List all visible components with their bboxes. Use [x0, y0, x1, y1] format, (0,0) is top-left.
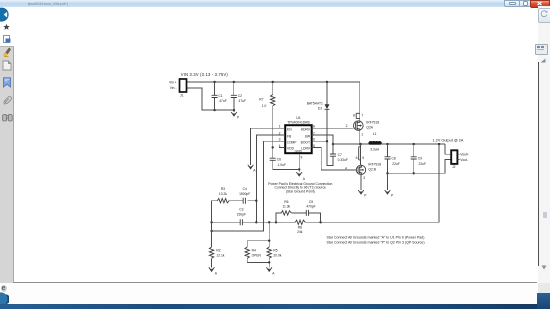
wire J1 minus to input ground [187, 88, 235, 110]
small page widget icon [535, 44, 548, 55]
svg-text:R5: R5 [273, 248, 277, 252]
taskbar [0, 304, 550, 309]
svg-text:J2: J2 [452, 165, 456, 169]
note star grounds [327, 235, 425, 244]
svg-text:1: 1 [361, 133, 363, 137]
svg-text:20.0k: 20.0k [273, 254, 281, 258]
svg-text:R3: R3 [221, 187, 225, 191]
inductor L1 [333, 132, 445, 152]
node junction BOOT [326, 140, 328, 142]
diode D1 BAT54HT1 [307, 82, 330, 166]
svg-text:22uF: 22uF [392, 162, 400, 166]
node junction SW corner [332, 143, 334, 145]
wire U1 FB column [256, 135, 285, 222]
wire R4 R5 bottom [247, 258, 269, 267]
wire HDRV to Q2A gate [312, 127, 354, 129]
bottom triangle [541, 265, 547, 270]
svg-text:R6: R6 [284, 200, 288, 204]
svg-text:C6: C6 [277, 158, 281, 162]
resistor R2 [209, 247, 224, 267]
wire feedback from output to W2 bus [321, 144, 440, 222]
svg-text:1500pF: 1500pF [239, 192, 250, 196]
node junction W3 left rail [210, 230, 212, 232]
wire U1 GND stub [298, 153, 300, 169]
node junction C2 top [233, 81, 235, 83]
bottom chrome [13, 282, 537, 283]
ground R2 A [209, 267, 218, 275]
wire W1 compensation top [212, 200, 257, 202]
node junction R5 top [268, 240, 270, 242]
svg-text:OPEN: OPEN [252, 254, 262, 258]
capacitor C2 [231, 82, 246, 110]
svg-text:A: A [215, 272, 218, 276]
svg-text:1.0uF: 1.0uF [278, 163, 286, 167]
svg-text:A: A [272, 272, 275, 276]
transistor Q2B [345, 163, 381, 191]
node junction switch node [359, 143, 362, 146]
wire R4 R5 top [247, 222, 269, 247]
svg-text:COMP: COMP [287, 141, 298, 145]
svg-text:R7: R7 [259, 97, 263, 101]
svg-text:C7: C7 [338, 153, 342, 157]
resistor R4 [245, 247, 262, 258]
connector J1 [169, 72, 228, 97]
node junction W2 left rail [210, 221, 212, 223]
scroll thumb blob [543, 212, 547, 218]
node junction C1 top [213, 81, 215, 83]
node junction C1 bottom [213, 109, 215, 111]
op-amp U1 TPS40041DRB [279, 116, 318, 159]
resistor R8 [295, 220, 305, 234]
svg-text:24k: 24k [297, 230, 303, 234]
svg-text:2: 2 [346, 124, 348, 128]
svg-text:7: 7 [361, 113, 363, 117]
resistor R6 [276, 200, 306, 222]
title bar [0, 0, 550, 7]
e icon [1, 285, 7, 292]
capacitor C6 [270, 147, 300, 169]
wire VIN rail down to Q2A drain [359, 82, 361, 121]
svg-text:BAT54HT1: BAT54HT1 [307, 102, 323, 106]
svg-text:P: P [364, 193, 367, 197]
capacitor C7 [327, 144, 348, 166]
resistor R3 [217, 187, 229, 203]
node junction output feedback tap [438, 143, 440, 145]
svg-text:D1: D1 [318, 107, 322, 111]
resistor R7 [259, 82, 275, 147]
resistor R5 [267, 247, 282, 258]
svg-text:1.0: 1.0 [262, 104, 267, 108]
ground C8 P [385, 173, 394, 197]
svg-text:A: A [303, 177, 306, 181]
node junction GND/C6 [298, 168, 300, 170]
capacitor C3 [237, 208, 246, 226]
node junction C2 bottom [233, 109, 235, 111]
note power pad [268, 182, 332, 193]
svg-text:R2: R2 [216, 248, 220, 252]
svg-text:470pF: 470pF [306, 205, 315, 209]
svg-text:47uF: 47uF [219, 99, 227, 103]
svg-text:47uF: 47uF [239, 99, 247, 103]
paperclip icon [2, 95, 12, 106]
wire output to J2 plus [445, 144, 451, 154]
svg-text:Q2:B: Q2:B [368, 167, 376, 171]
wire U1 EN to ground column [251, 128, 286, 165]
svg-text:BOOT: BOOT [301, 141, 310, 145]
svg-text:12.1k: 12.1k [216, 254, 224, 258]
svg-text:IRF7918: IRF7918 [366, 121, 379, 125]
svg-text:Vin +: Vin + [169, 80, 177, 84]
node junction D1 top [326, 81, 328, 83]
svg-text:LDRV: LDRV [301, 147, 311, 151]
svg-text:Vout-: Vout- [460, 158, 468, 162]
wire switch column to Q2B drain [356, 144, 365, 165]
svg-text:VDD: VDD [287, 147, 295, 151]
node junction C8 bottom [386, 172, 388, 174]
svg-text:8: 8 [353, 113, 355, 117]
ground U1 A [296, 169, 305, 181]
svg-text:Q2A: Q2A [366, 125, 373, 129]
svg-text:C4: C4 [243, 187, 247, 191]
svg-text:C9: C9 [418, 156, 422, 160]
bookmark icon [2, 77, 12, 88]
node junction VDD pin4 [272, 146, 274, 148]
svg-text:10.2k: 10.2k [219, 192, 227, 196]
wire LDRV to Q2B gate [312, 147, 357, 170]
star icon [2, 23, 11, 31]
ground R5 A [266, 267, 275, 275]
ground EN A [248, 165, 256, 173]
capacitor C1 [212, 82, 227, 110]
svg-text:C8: C8 [392, 156, 396, 160]
svg-text:U1: U1 [296, 116, 301, 120]
svg-text:3.3uH: 3.3uH [370, 147, 379, 151]
ground input P [231, 110, 240, 120]
node junction W2 R6 branch left [275, 221, 277, 223]
svg-text:150pF: 150pF [237, 213, 246, 217]
svg-text:C5: C5 [309, 200, 313, 204]
svg-text:Vin -: Vin - [170, 86, 177, 90]
svg-text:R8: R8 [298, 226, 302, 230]
node junction W2 R6 branch right [319, 221, 321, 223]
refresh button [538, 8, 550, 23]
svg-text:VIN 3.3V (3.13 - 3.75V): VIN 3.3V (3.13 - 3.75V) [181, 72, 229, 77]
svg-text:9: 9 [301, 156, 303, 160]
node junction R5 bottom [268, 261, 270, 263]
svg-text:SW: SW [305, 134, 311, 138]
svg-text:IRF7918: IRF7918 [368, 163, 381, 167]
svg-text:A: A [253, 168, 256, 172]
capacitor C9 [411, 143, 426, 175]
right scrollbar strip [538, 6, 550, 286]
page icon [3, 35, 12, 43]
svg-text:0.33uF: 0.33uF [338, 158, 348, 162]
node junction FB W2 [255, 221, 257, 223]
svg-text:EN: EN [287, 128, 292, 132]
node junction W1 right [255, 200, 257, 202]
wire U1 SW to switch node [312, 135, 333, 144]
svg-text:C1: C1 [218, 94, 222, 98]
wire W2 bus [212, 221, 440, 223]
binoculars icon [2, 112, 13, 122]
svg-text:Vout+: Vout+ [460, 153, 469, 157]
window buttons [504, 0, 521, 7]
wire left rail [211, 201, 213, 247]
node junction R7 top [272, 81, 274, 83]
svg-text:Star Connect All Grounds marke: Star Connect All Grounds marked "P" to Q… [327, 241, 425, 245]
svg-text:5: 5 [362, 156, 364, 160]
wire top VIN rail [187, 81, 360, 83]
svg-text:4: 4 [279, 144, 281, 148]
ground Q2B P [358, 190, 367, 197]
transistor Q2A [346, 113, 380, 144]
node junction W2 R5 tap [268, 221, 270, 223]
svg-text:P: P [237, 116, 240, 120]
svg-text:L1: L1 [373, 132, 377, 136]
capacitor C8 [385, 143, 400, 173]
svg-text:R4: R4 [252, 248, 256, 252]
svg-text:6: 6 [356, 156, 358, 160]
svg-text:(Star Ground Point): (Star Ground Point) [286, 189, 315, 193]
page outline icon [2, 60, 12, 71]
wire output return line [388, 159, 452, 173]
svg-text:J1: J1 [180, 94, 184, 98]
blue orb bottom-left [0, 292, 9, 307]
left white icon column [0, 7, 13, 46]
svg-text:3: 3 [363, 176, 365, 180]
svg-text:1.2V Output @ 2A: 1.2V Output @ 2A [433, 138, 464, 142]
svg-text:GND: GND [295, 149, 303, 153]
pen tool icon [2, 47, 12, 57]
svg-text:C3: C3 [239, 208, 243, 212]
svg-text:HDRV: HDRV [301, 128, 311, 132]
left gray panel [0, 46, 14, 286]
small triangle marker [540, 58, 546, 63]
svg-text:P: P [391, 193, 394, 197]
wire U1 BOOT [312, 140, 327, 142]
back circle icon [0, 7, 13, 23]
svg-text:TPS40041DRB: TPS40041DRB [287, 121, 310, 125]
svg-text:Star Connect All Grounds marke: Star Connect All Grounds marked "A" to U… [327, 235, 425, 239]
thin vertical line [538, 62, 539, 266]
capacitor C5 [306, 200, 320, 222]
connector J2 [433, 138, 469, 169]
capacitor C4 [239, 187, 250, 204]
svg-text:C2: C2 [238, 94, 242, 98]
svg-text:22uF: 22uF [419, 162, 427, 166]
wire U1 COMP column [212, 141, 286, 231]
svg-text:11.3k: 11.3k [282, 205, 290, 209]
